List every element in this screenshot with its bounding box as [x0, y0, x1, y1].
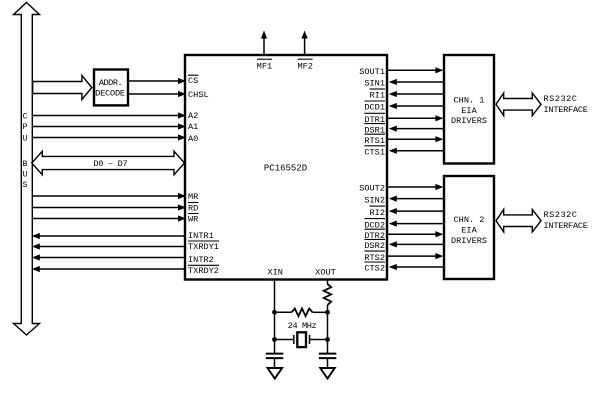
- pin label CTS1: [364, 146, 385, 158]
- capacitor C2: [319, 354, 337, 368]
- data bus D0 - D7 double arrow: [32, 151, 185, 175]
- pin label DSR1: [364, 124, 385, 136]
- wire DCD1: [389, 103, 443, 109]
- wire RI2: [389, 208, 443, 214]
- wire TXRDY2: [32, 266, 184, 272]
- pin label DTR1: [364, 113, 385, 125]
- wire TXRDY1: [32, 243, 184, 249]
- wire DTR1: [388, 115, 443, 121]
- svg-text:RTS2: RTS2: [364, 253, 385, 263]
- svg-text:DRIVERS: DRIVERS: [451, 116, 487, 126]
- node: junction XOUT-crystal: [325, 337, 330, 342]
- svg-text:DSR2: DSR2: [364, 241, 385, 251]
- resistor R1 vertical on XOUT: [324, 284, 332, 305]
- svg-text:MR: MR: [188, 192, 198, 202]
- resistor R2 horizontal between XIN and XOUT: [275, 309, 328, 317]
- pin label A2: [188, 111, 198, 121]
- EIA drivers box channel 2: [444, 176, 494, 279]
- pin label XIN: [267, 268, 282, 278]
- node: junction XIN-crystal: [272, 337, 277, 342]
- RS232C interface double arrow channel 2: [496, 209, 541, 232]
- svg-text:ADDR.: ADDR.: [99, 78, 122, 88]
- pin label INTR2: [188, 255, 214, 265]
- svg-text:RS232C: RS232C: [544, 94, 578, 104]
- svg-text:XOUT: XOUT: [315, 268, 336, 278]
- RS232C interface double arrow channel 1: [496, 93, 541, 116]
- pin label RI2: [370, 206, 386, 218]
- svg-text:EIA: EIA: [461, 106, 477, 116]
- pin label TXRDY2: [188, 265, 219, 276]
- node: junction XOUT-R2: [325, 310, 330, 315]
- svg-text:INTR2: INTR2: [188, 255, 214, 265]
- wire DCD2: [389, 221, 443, 227]
- svg-text:RI1: RI1: [370, 91, 385, 101]
- wire INTR1: [32, 233, 184, 239]
- svg-text:B: B: [23, 160, 28, 169]
- pin label TXRDY1: [188, 241, 219, 252]
- svg-text:A1: A1: [188, 122, 198, 132]
- svg-text:A0: A0: [188, 134, 198, 144]
- svg-text:U: U: [23, 171, 28, 180]
- svg-text:RI2: RI2: [370, 208, 385, 218]
- ground (left): [268, 368, 283, 379]
- wire MR: [33, 193, 186, 199]
- svg-text:SOUT1: SOUT1: [359, 67, 385, 77]
- svg-text:CTS1: CTS1: [364, 148, 385, 158]
- wire DSR1: [389, 126, 443, 132]
- svg-text:CS: CS: [188, 76, 198, 86]
- svg-text:CHSL: CHSL: [188, 90, 209, 100]
- wire XIN down: [274, 281, 276, 354]
- pin label MR: [188, 192, 198, 202]
- crystal Y1 24 MHz: [275, 332, 328, 347]
- pin label RD: [188, 203, 199, 214]
- wire DTR2: [388, 231, 443, 237]
- wire CTS1: [389, 148, 443, 154]
- pin label MF1: [257, 59, 272, 71]
- pin label SIN1: [364, 79, 385, 89]
- pin label RI1: [370, 89, 386, 101]
- pin label A1: [188, 122, 198, 132]
- pin label MF2: [297, 59, 312, 71]
- pin label CS: [188, 75, 199, 86]
- wire RI1: [389, 91, 443, 97]
- pin MF2 arrow up: [302, 31, 308, 55]
- capacitor C1: [266, 354, 284, 368]
- wire CS: decoder to UART: [128, 78, 186, 84]
- svg-text:XIN: XIN: [267, 268, 282, 278]
- svg-text:TXRDY1: TXRDY1: [188, 242, 219, 252]
- RS232C interface label channel 2: [544, 210, 588, 231]
- svg-text:RD: RD: [188, 204, 198, 214]
- pin label RTS2: [364, 251, 385, 263]
- svg-text:SIN2: SIN2: [364, 195, 385, 205]
- wire CTS2: [389, 264, 443, 270]
- wire A1: [33, 123, 186, 129]
- wire XOUT down: [327, 281, 329, 285]
- wire SIN1: [389, 79, 443, 85]
- wire SOUT1: [388, 67, 443, 73]
- svg-text:CTS2: CTS2: [364, 264, 385, 274]
- ground (right): [320, 368, 335, 379]
- pin label DCD2: [364, 219, 385, 231]
- RS232C interface label channel 1: [544, 94, 588, 115]
- svg-text:D0 – D7: D0 – D7: [93, 159, 127, 169]
- svg-text:MF2: MF2: [297, 61, 312, 71]
- pin label SOUT1: [359, 67, 385, 77]
- svg-text:TXRDY2: TXRDY2: [188, 266, 219, 276]
- pin label DSR2: [364, 239, 385, 251]
- pin MF1 arrow up: [261, 31, 267, 55]
- svg-text:MF1: MF1: [257, 61, 272, 71]
- wire RTS2: [388, 253, 443, 259]
- svg-text:CHN. 2: CHN. 2: [454, 215, 485, 225]
- address decoder box: [94, 70, 128, 106]
- pin label INTR1: [188, 231, 214, 241]
- svg-text:EIA: EIA: [461, 225, 477, 235]
- svg-text:RS232C: RS232C: [544, 210, 578, 220]
- wire RD: [33, 204, 186, 210]
- EIA drivers box channel 1: [444, 55, 494, 164]
- wire SOUT2: [388, 184, 443, 190]
- pin label CHSL: [188, 90, 209, 100]
- svg-text:DCD1: DCD1: [364, 103, 385, 113]
- svg-text:RTS1: RTS1: [364, 136, 385, 146]
- svg-text:S: S: [23, 181, 28, 190]
- wire WR: [33, 215, 186, 221]
- svg-text:DRIVERS: DRIVERS: [451, 236, 487, 246]
- svg-text:A2: A2: [188, 111, 198, 121]
- wire RTS1: [388, 136, 443, 142]
- svg-text:U: U: [23, 135, 28, 144]
- svg-text:DECODE: DECODE: [95, 88, 125, 98]
- wire: hollow arrow from CPU bus to address decoder: [33, 76, 92, 100]
- svg-text:SOUT2: SOUT2: [359, 184, 385, 194]
- CPU BUS label: [23, 112, 28, 190]
- CPU bus double-headed vertical arrow: [14, 3, 40, 336]
- pin label DCD1: [364, 101, 385, 113]
- wire A0: [33, 134, 186, 140]
- pin label A0: [188, 134, 198, 144]
- wire DSR2: [389, 241, 443, 247]
- svg-text:CHN. 1: CHN. 1: [454, 95, 485, 105]
- pin label WR: [188, 214, 199, 225]
- wire CHSL: decoder to UART: [128, 91, 186, 97]
- wire XOUT to junction: [327, 305, 329, 354]
- wire INTR2: [32, 254, 184, 260]
- svg-text:PC16552D: PC16552D: [264, 164, 307, 174]
- svg-text:24 MHz: 24 MHz: [288, 321, 317, 331]
- pin label DTR2: [364, 229, 385, 241]
- pin label SIN2: [364, 195, 385, 205]
- svg-text:INTERFACE: INTERFACE: [544, 105, 588, 115]
- svg-text:C: C: [23, 112, 28, 121]
- pin label SOUT2: [359, 184, 385, 194]
- svg-text:INTR1: INTR1: [188, 231, 214, 241]
- UART U1 PC16552D box: [185, 55, 387, 280]
- wire SIN2: [389, 196, 443, 202]
- svg-text:WR: WR: [188, 215, 198, 225]
- wire A2: [33, 112, 186, 118]
- pin label CTS2: [364, 262, 385, 274]
- pin label RTS1: [364, 134, 385, 146]
- svg-text:P: P: [23, 123, 28, 132]
- node: junction XIN-R2: [272, 310, 277, 315]
- svg-text:INTERFACE: INTERFACE: [544, 221, 588, 231]
- svg-text:SIN1: SIN1: [364, 79, 385, 89]
- pin label XOUT: [315, 268, 336, 278]
